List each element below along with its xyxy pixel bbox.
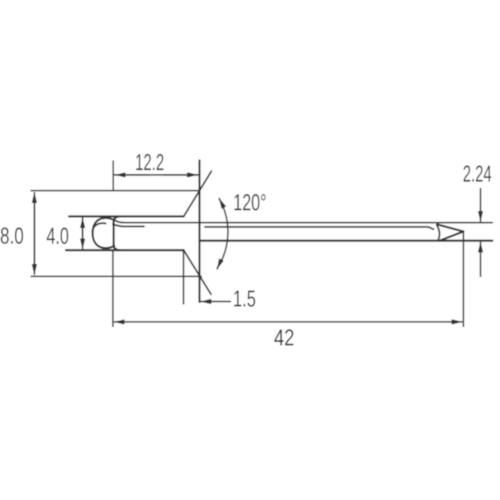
svg-text:8.0: 8.0 (0, 223, 24, 249)
svg-text:12.2: 12.2 (135, 149, 164, 175)
svg-text:1.5: 1.5 (233, 285, 256, 311)
svg-text:120°: 120° (233, 189, 266, 215)
svg-text:2.24: 2.24 (463, 161, 492, 187)
svg-text:42: 42 (274, 325, 295, 351)
svg-text:4.0: 4.0 (46, 223, 68, 249)
